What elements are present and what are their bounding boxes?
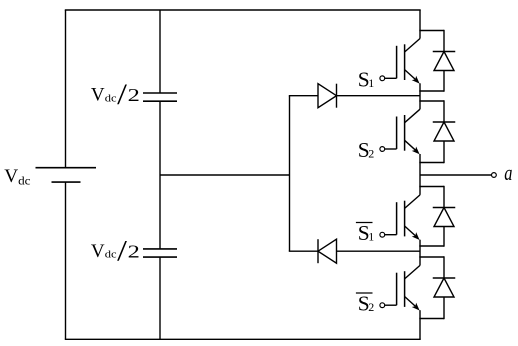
antiparallel diode of S1: triangle (points up)	[434, 52, 454, 71]
antiparallel diode of S2: cathode bar	[433, 121, 456, 123]
label S2 bar with overline	[356, 292, 374, 316]
igbt S2: emitter diagonal with arrow	[405, 140, 420, 154]
antiparallel diode of S2: cathode wire	[443, 100, 445, 122]
svg-text:a: a	[504, 160, 512, 185]
igbt S2 bar: gate lead	[385, 304, 397, 306]
igbt S2 bar: emitter diagonal with arrow	[405, 297, 420, 311]
antiparallel diode of S1 bar: cathode wire	[443, 186, 445, 208]
svg-text:dc: dc	[105, 92, 117, 104]
capacitor C1 top plate	[143, 92, 177, 94]
igbt S1: collector diagonal	[405, 39, 420, 53]
wire bottom clamp line	[289, 250, 420, 252]
clamp diode D6 (points left)	[318, 239, 337, 263]
igbt S1 bar: gate bar	[396, 202, 398, 235]
igbt S2: collector diagonal	[405, 109, 420, 123]
antiparallel diode of S1 bar: top stub	[419, 186, 444, 188]
svg-text:V: V	[91, 241, 105, 262]
wire middle bus upper (top rail to C1)	[159, 10, 161, 93]
igbt S2 bar: gate terminal circle	[380, 303, 385, 308]
svg-text:V: V	[91, 85, 105, 106]
wire clamp connector vertical	[289, 96, 291, 252]
antiparallel diode of S2: anode wire	[443, 141, 445, 163]
wire bus segment S2bar to bottom rail	[419, 310, 421, 339]
antiparallel diode of S2: triangle (points up)	[434, 122, 454, 141]
igbt S2: gate terminal circle	[380, 147, 385, 152]
igbt S1: body bar	[404, 44, 406, 80]
wire bus segment top rail to S1	[419, 10, 421, 39]
battery Vdc positive plate	[36, 167, 97, 169]
wire left bus upper (battery to top rail)	[65, 10, 67, 168]
wire middle bus lower (C2 to bottom rail)	[159, 257, 161, 339]
label Vdc/2 lower	[91, 235, 140, 267]
antiparallel diode of S2 bar: anode wire	[443, 297, 445, 319]
igbt S2: gate bar	[396, 117, 398, 150]
antiparallel diode of S1: bottom stub	[419, 90, 444, 92]
antiparallel diode of S1 bar: bottom stub	[419, 245, 444, 247]
igbt S1 bar: gate terminal circle	[380, 232, 385, 237]
battery Vdc negative plate	[52, 181, 81, 183]
svg-text:V: V	[4, 166, 18, 187]
label S1	[358, 68, 375, 92]
antiparallel diode of S2 bar: top stub	[419, 256, 444, 258]
antiparallel diode of S2: bottom stub	[419, 162, 444, 164]
antiparallel diode of S2 bar: triangle (points up)	[434, 278, 454, 297]
antiparallel diode of S1: cathode wire	[443, 30, 445, 52]
wire left bus lower (battery to bottom rail)	[65, 182, 67, 339]
igbt S1: gate terminal circle	[380, 76, 385, 81]
antiparallel diode of S2 bar: bottom stub	[419, 318, 444, 320]
wire top clamp line	[289, 95, 420, 97]
igbt S2 bar: gate bar	[396, 273, 398, 306]
antiparallel diode of S1: cathode bar	[433, 51, 456, 53]
label Vdc/2 upper	[91, 79, 140, 111]
capacitor C1 bottom plate	[143, 100, 177, 102]
wire middle bus middle (C1 to C2)	[159, 101, 161, 249]
capacitor C2 bottom plate	[143, 256, 177, 258]
igbt S1 bar: collector diagonal	[405, 195, 420, 209]
wire neutral (middle bus to clamp connector)	[160, 174, 290, 176]
antiparallel diode of S1 bar: triangle (points up)	[434, 208, 454, 227]
igbt S2: gate lead	[385, 148, 397, 150]
igbt S1: emitter diagonal with arrow	[405, 70, 420, 84]
label S1 bar with overline	[356, 221, 374, 245]
clamp diode D5 (points right)	[318, 84, 337, 108]
igbt S1: gate bar	[396, 46, 398, 79]
svg-text:2: 2	[368, 147, 374, 161]
wire bus segment S2 to S1bar through output node	[419, 154, 421, 195]
igbt S1 bar: emitter diagonal with arrow	[405, 226, 420, 240]
wire bus segment S1 to S2 through J1	[419, 83, 421, 109]
label S2	[358, 138, 375, 162]
antiparallel diode of S2 bar: cathode wire	[443, 256, 445, 278]
igbt S2: body bar	[404, 115, 406, 151]
svg-text:dc: dc	[18, 176, 30, 188]
igbt S1 bar: gate lead	[385, 234, 397, 236]
igbt S1 bar: body bar	[404, 201, 406, 237]
svg-text:dc: dc	[105, 249, 117, 261]
capacitor C2 top plate	[143, 248, 177, 250]
svg-text:/: /	[117, 235, 128, 267]
svg-text:2: 2	[128, 241, 140, 261]
svg-text:2: 2	[368, 300, 374, 314]
svg-text:1: 1	[368, 76, 374, 90]
antiparallel diode of S1 bar: anode wire	[443, 227, 445, 247]
node a terminal circle	[492, 173, 497, 178]
svg-text:1: 1	[368, 230, 374, 244]
igbt S1: gate lead	[385, 77, 397, 79]
igbt S2 bar: collector diagonal	[405, 265, 420, 279]
antiparallel diode of S2 bar: cathode bar	[433, 277, 456, 279]
wire bottom rail (-)	[65, 338, 421, 340]
antiparallel diode of S1: top stub	[419, 30, 444, 32]
svg-text:/: /	[117, 79, 128, 111]
wire bus segment S1bar to S2bar through J3	[419, 240, 421, 266]
antiparallel diode of S2: top stub	[419, 100, 444, 102]
label Vdc	[4, 166, 30, 188]
wire output line	[420, 174, 491, 176]
igbt S2 bar: body bar	[404, 271, 406, 307]
antiparallel diode of S1: anode wire	[443, 71, 445, 92]
antiparallel diode of S1 bar: cathode bar	[433, 207, 456, 209]
wire top rail (+)	[65, 9, 421, 11]
svg-text:2: 2	[128, 85, 140, 105]
